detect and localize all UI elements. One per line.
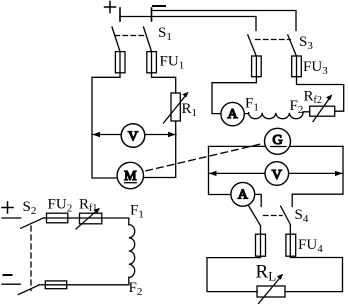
svg-text:S4: S4 <box>295 207 309 225</box>
wire (Rf1 to motor field coil) <box>102 218 129 225</box>
resistor Rf1 (field rheostat) <box>80 213 102 224</box>
resistor RL (load rheostat) <box>257 286 285 297</box>
inductor F1-F2 (generator field winding) <box>249 113 303 119</box>
wire (A to S4 left post) <box>255 194 262 206</box>
wire (negative terminal lead) <box>2 283 20 285</box>
svg-text:Rf1: Rf1 <box>79 197 97 215</box>
fuse FU1 (right cartridge) <box>151 52 153 73</box>
wire (positive terminal lead) <box>2 217 21 219</box>
voltmeter V (generator side) <box>265 162 289 186</box>
svg-text:F1: F1 <box>130 203 144 221</box>
fuse FU4 (left cartridge) <box>260 226 262 256</box>
svg-text:S3: S3 <box>299 34 313 52</box>
svg-text:A: A <box>238 188 249 203</box>
svg-text:M: M <box>124 169 137 184</box>
node + (field supply positive, bottom left) <box>2 202 13 213</box>
svg-text:F1: F1 <box>245 96 259 114</box>
fuse FU2 pair (lower, unlabeled) <box>45 281 66 289</box>
wire (to FU2) <box>44 217 47 219</box>
wire (box right edge to S4 right post) <box>292 146 343 206</box>
fuse FU3 (left cartridge) <box>255 56 257 77</box>
wire (right fuse to R1 top) <box>152 73 176 93</box>
wire (coil to Rf2) <box>303 112 310 113</box>
switch S2 (upper pole) <box>21 218 44 229</box>
wire (voltmeter arrow line across armature) <box>92 134 176 136</box>
svg-text:Rf2: Rf2 <box>304 89 322 107</box>
switch S2 (lower pole) <box>18 285 38 294</box>
svg-text:V: V <box>272 168 282 183</box>
svg-text:R1: R1 <box>182 101 198 119</box>
ammeter A (load circuit) <box>231 182 255 206</box>
svg-text:F2: F2 <box>290 98 304 116</box>
switch S3 <box>248 35 256 56</box>
svg-text:FU4: FU4 <box>298 237 323 255</box>
node + (supply positive terminal, top) <box>105 2 116 13</box>
wire (positive post tick) <box>119 8 121 21</box>
wire (coil bottom to lower fuse) <box>67 277 129 284</box>
wire (FU4 right to RL right) <box>285 256 343 291</box>
wire (voltmeter arrow line across load) <box>209 172 344 174</box>
switch S4 <box>249 206 261 226</box>
svg-text:RL: RL <box>256 262 277 284</box>
svg-text:V: V <box>128 130 138 145</box>
switch S2 (linkage) <box>30 226 32 291</box>
wire (FU4 left to RL left) <box>207 256 261 291</box>
svg-text:FU3: FU3 <box>303 59 328 77</box>
generator G <box>265 128 291 154</box>
wire (generator output box top) <box>209 145 344 147</box>
svg-text:A: A <box>228 107 239 122</box>
fuse FU2 <box>47 213 68 223</box>
motor M <box>117 162 143 188</box>
wire (Rf2 right up to FU3 right) <box>297 77 344 112</box>
svg-text:S1: S1 <box>158 25 172 43</box>
node - (field supply negative, bottom left) <box>4 274 12 276</box>
wire (FU2 to Rf1) <box>68 217 80 219</box>
svg-text:FU1: FU1 <box>160 54 185 72</box>
wire (negative rail to S3 right) <box>152 11 296 31</box>
voltmeter V (motor side) <box>121 124 145 148</box>
wire (box left edge to ammeter) <box>209 146 232 194</box>
svg-text:G: G <box>272 133 282 148</box>
wire (left fuse down to left rail of armature loop) <box>92 73 120 178</box>
fuse FU4 (right cartridge) <box>289 225 291 256</box>
wire (negative post tick) <box>151 8 153 21</box>
svg-text:FU2: FU2 <box>48 197 73 215</box>
ammeter A (generator field) <box>221 102 244 125</box>
wire (positive rail to S3 left) <box>120 17 256 31</box>
resistor Rf2 (field rheostat) <box>310 106 335 116</box>
wire (dashed shaft coupling M to G) <box>146 144 263 171</box>
fuse FU1 (left cartridge) <box>119 52 121 73</box>
wire (lower fuse to S2 lower contact) <box>39 284 46 286</box>
node - (supply negative terminal, top) <box>153 5 165 7</box>
svg-text:S2: S2 <box>23 199 37 217</box>
wire (R1 bottom to M right side) <box>143 121 175 178</box>
fuse FU3 (right cartridge) <box>296 56 298 77</box>
svg-text:F2: F2 <box>129 280 143 298</box>
switch S1 <box>112 27 120 52</box>
resistor R1 (rheostat) <box>171 93 180 121</box>
wire (FU3 left down to ammeter A field circuit) <box>212 77 256 114</box>
inductor F1-F2 (motor field winding) <box>129 225 135 278</box>
wire (A to field coil) <box>244 112 248 115</box>
